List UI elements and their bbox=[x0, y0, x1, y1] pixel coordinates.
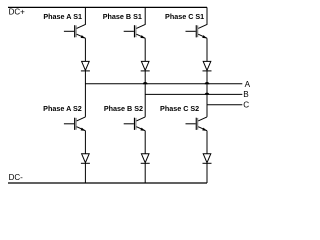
wire Phase A diode to DC- rail bbox=[84, 163, 86, 183]
diode DB2 (Phase B lower) bbox=[141, 154, 150, 164]
wire Phase A S2 emitter to diode DA2 bbox=[84, 131, 86, 154]
wire output line B bbox=[145, 93, 242, 95]
svg-text:DC-: DC- bbox=[9, 173, 24, 182]
svg-text:Phase B S1: Phase B S1 bbox=[103, 12, 142, 21]
svg-text:C: C bbox=[243, 101, 249, 110]
diode DB1 (Phase B upper) bbox=[141, 61, 150, 71]
DC- rail wire bbox=[8, 182, 207, 184]
wire output line A bbox=[85, 83, 242, 85]
transistor Phase B S2 bbox=[124, 117, 146, 131]
svg-text:A: A bbox=[245, 80, 251, 89]
diode DA2 (Phase A lower) bbox=[81, 154, 90, 164]
wire Phase B leg to midpoint node B bbox=[144, 71, 146, 117]
diode DC2 (Phase C lower) bbox=[203, 154, 212, 164]
junction bump line B over leg C bbox=[205, 93, 210, 95]
wire Phase A S1 emitter to diode DA1 bbox=[84, 38, 86, 61]
svg-text:Phase C S1: Phase C S1 bbox=[165, 12, 204, 21]
wire Phase B S2 emitter to diode DB2 bbox=[144, 131, 146, 154]
DC+ rail wire bbox=[8, 6, 207, 8]
svg-text:DC+: DC+ bbox=[9, 8, 26, 17]
wire Phase A leg to midpoint node A bbox=[84, 71, 86, 117]
wire Phase C S1 emitter to diode DC1 bbox=[206, 38, 208, 61]
wire output line C bbox=[207, 104, 242, 106]
svg-text:Phase B S2: Phase B S2 bbox=[104, 104, 143, 113]
transistor Phase C S2 bbox=[186, 117, 208, 131]
wire Phase B S1 emitter to diode DB1 bbox=[144, 38, 146, 61]
wire Phase B diode to DC- rail bbox=[144, 163, 146, 183]
junction bump line A over leg B bbox=[143, 82, 148, 84]
svg-text:Phase C S2: Phase C S2 bbox=[160, 104, 199, 113]
svg-text:Phase A S2: Phase A S2 bbox=[43, 104, 82, 113]
diode DC1 (Phase C upper) bbox=[203, 61, 212, 71]
wire Phase C leg to midpoint node C bbox=[206, 71, 208, 117]
transistor Phase A S1 bbox=[64, 7, 86, 38]
junction bump line A over leg C bbox=[205, 82, 210, 84]
diode DA1 (Phase A upper) bbox=[81, 61, 90, 71]
svg-text:B: B bbox=[243, 90, 249, 99]
svg-text:Phase A S1: Phase A S1 bbox=[43, 12, 82, 21]
transistor Phase C S1 bbox=[186, 7, 208, 38]
wire Phase C diode to DC- rail bbox=[206, 163, 208, 183]
transistor Phase A S2 bbox=[64, 117, 86, 131]
wire Phase C S2 emitter to diode DC2 bbox=[206, 131, 208, 154]
transistor Phase B S1 bbox=[124, 7, 146, 38]
